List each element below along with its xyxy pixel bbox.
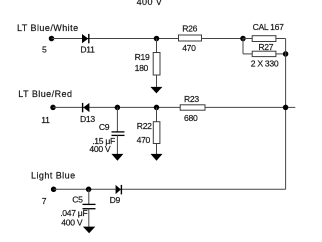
label R27	[258, 42, 273, 52]
label C5	[72, 195, 83, 205]
diode D13 (points left)	[83, 103, 90, 112]
wire row1: node 5 to R26	[52, 38, 180, 40]
svg-text:180: 180	[135, 63, 149, 73]
junction node R22	[154, 105, 160, 111]
svg-text:R27: R27	[258, 42, 273, 52]
wire R27 left lead	[243, 53, 252, 55]
svg-text:400 V: 400 V	[137, 0, 163, 7]
wire R22 branch top	[156, 107, 158, 121]
wire CAL block left vertical	[242, 39, 244, 54]
junction node C9	[115, 105, 121, 111]
net label Light Blue	[31, 171, 76, 181]
value 470	[137, 135, 151, 145]
value .15 uF	[92, 136, 115, 146]
svg-text:CAL 167: CAL 167	[253, 22, 285, 32]
svg-text:D13: D13	[80, 114, 95, 124]
net label LT Blue/Red	[18, 89, 72, 99]
wire C5 branch top	[88, 189, 90, 204]
svg-text:LT Blue/Red: LT Blue/Red	[18, 89, 72, 99]
svg-text:R22: R22	[137, 121, 152, 131]
wire R23 to right rail and stub	[205, 106, 295, 108]
wire C5 branch bottom	[88, 209, 90, 227]
svg-text:7: 7	[42, 196, 47, 206]
svg-text:470: 470	[182, 43, 196, 53]
capacitor C5	[83, 204, 96, 208]
value 400 V	[89, 144, 111, 154]
value .047 uF	[60, 208, 87, 218]
label R19	[135, 52, 150, 62]
wire right rail vertical	[285, 39, 287, 190]
svg-text:R26: R26	[182, 24, 197, 34]
svg-text:400 V: 400 V	[61, 218, 83, 228]
svg-text:400 V: 400 V	[89, 144, 111, 154]
label R22	[137, 121, 152, 131]
diode D9	[116, 185, 122, 195]
label CAL 167	[253, 22, 285, 32]
wire R19 to arrow	[156, 75, 158, 87]
resistor R19	[153, 53, 160, 76]
value 180	[135, 63, 149, 73]
wire row3: node 7 to right rail	[54, 188, 286, 190]
wire R19 branch vertical	[156, 39, 158, 53]
junction node row2/right rail	[283, 105, 289, 111]
label R23	[184, 94, 199, 104]
arrow (continuation) below C5	[83, 227, 95, 234]
arrow (continuation) below C9	[111, 154, 123, 161]
capacitor C9	[112, 132, 125, 136]
value 2 X 330	[251, 59, 279, 69]
value 680	[184, 113, 198, 123]
node 7 terminal dot	[51, 187, 57, 193]
svg-text:5: 5	[42, 45, 47, 55]
wire R22 to arrow	[156, 144, 158, 155]
svg-text:C9: C9	[99, 122, 110, 132]
label D13	[80, 114, 95, 124]
pin number 7	[42, 196, 47, 206]
junction node CAL right	[283, 51, 289, 57]
svg-text:D11: D11	[80, 44, 95, 54]
junction node C5	[86, 187, 92, 193]
svg-text:2 X 330: 2 X 330	[251, 59, 279, 69]
resistor R27	[252, 51, 276, 56]
wire R27 right lead	[276, 53, 286, 55]
value 400 V	[61, 218, 83, 228]
svg-text:R19: R19	[135, 52, 150, 62]
svg-text:470: 470	[137, 135, 151, 145]
wire CAL top branch right lead	[276, 38, 286, 40]
junction node row1/R19	[154, 36, 160, 42]
pin number 5	[42, 45, 47, 55]
resistor R22	[153, 122, 160, 144]
wire R26 to CAL junction	[202, 38, 244, 40]
label D11	[80, 44, 95, 54]
label D9	[110, 195, 121, 205]
resistor CAL 167 (top of pair)	[252, 36, 276, 42]
arrow (continuation) below R19	[150, 87, 162, 94]
label C9	[99, 122, 110, 132]
arrow (continuation) below R22	[151, 154, 163, 161]
svg-text:11: 11	[41, 115, 50, 125]
diode D11	[82, 34, 89, 43]
label R26	[182, 24, 197, 34]
node 11 terminal dot	[50, 105, 56, 111]
pin number 11	[41, 115, 50, 125]
wire C9 branch bottom	[116, 135, 118, 154]
value 470	[182, 43, 196, 53]
svg-text:C5: C5	[72, 195, 83, 205]
svg-text:R23: R23	[184, 94, 199, 104]
wire CAL top branch left lead	[243, 38, 252, 40]
svg-text:LT Blue/White: LT Blue/White	[17, 23, 79, 33]
svg-text:D9: D9	[110, 195, 121, 205]
svg-text:680: 680	[184, 113, 198, 123]
wire C9 branch top	[116, 107, 118, 132]
node label 400 V (clipped at top edge)	[137, 0, 163, 7]
svg-text:Light Blue: Light Blue	[31, 171, 76, 181]
wire row2: node 11 to R23	[53, 106, 180, 108]
resistor R26	[179, 35, 202, 41]
junction node CAL left	[240, 36, 246, 42]
node 5 terminal dot	[49, 36, 55, 42]
net label LT Blue/White	[17, 23, 79, 33]
svg-text:.047 μF: .047 μF	[60, 208, 87, 218]
resistor R23	[180, 105, 205, 110]
